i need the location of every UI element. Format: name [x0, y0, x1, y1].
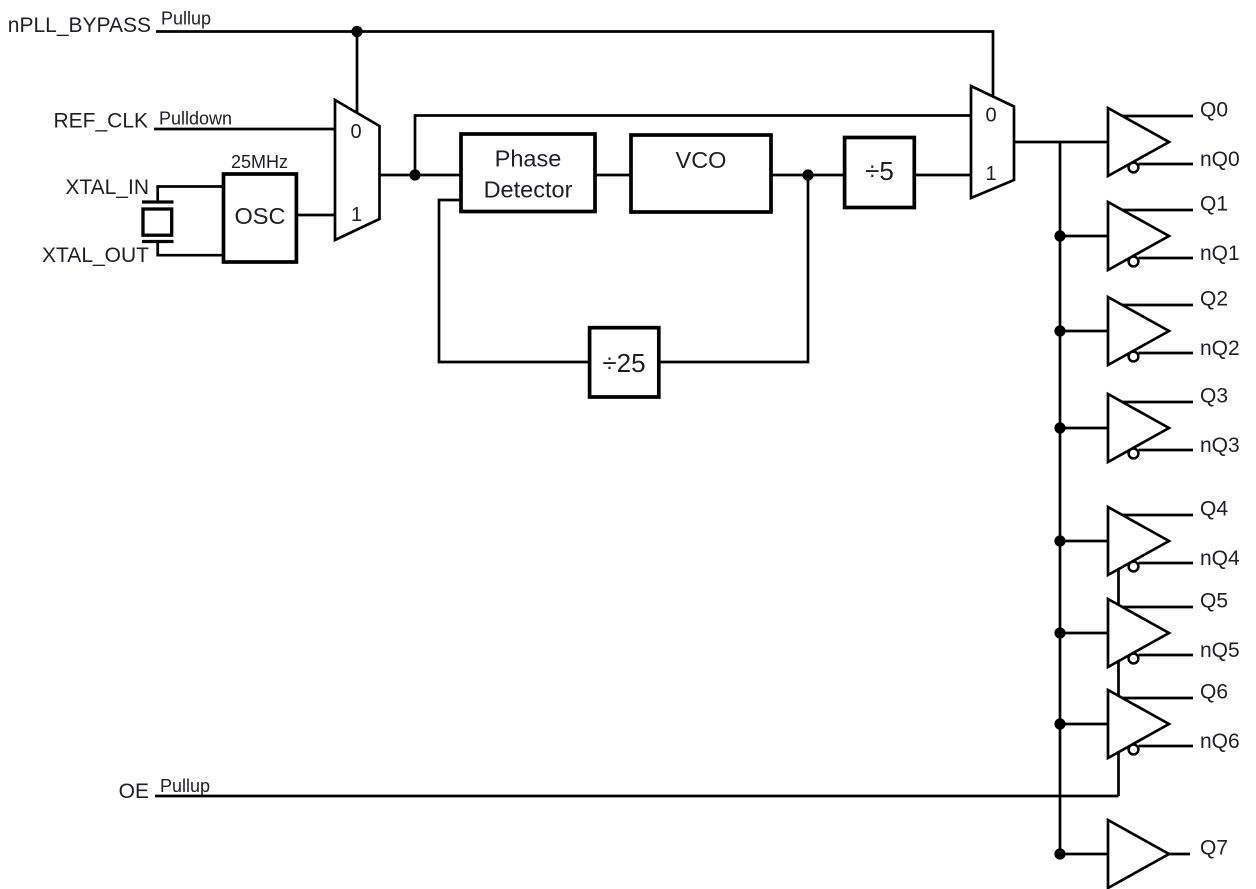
wire enable Q4 to Q5 [1117, 568, 1120, 606]
svg-text:XTAL_OUT: XTAL_OUT [42, 244, 149, 267]
svg-text:Q6: Q6 [1200, 681, 1228, 704]
vco U4 [631, 135, 771, 212]
svg-text:nQ2: nQ2 [1200, 337, 1240, 360]
svg-text:nQ6: nQ6 [1200, 730, 1240, 753]
wire divider /25 to Phase Detector feedback [439, 200, 590, 362]
buffer U6 Q1/nQ1 [1060, 193, 1240, 271]
svg-text:nPLL_BYPASS: nPLL_BYPASS [8, 14, 151, 37]
wire divider /5 to mux U2 input 1 [914, 174, 971, 177]
svg-text:Pullup: Pullup [160, 776, 210, 796]
svg-text:nQ1: nQ1 [1200, 242, 1240, 265]
svg-text:Q4: Q4 [1200, 498, 1228, 521]
buffer U12 Q7 [1060, 820, 1228, 888]
junction bus Q6 [1054, 718, 1065, 729]
wire clock distribution bus [1059, 142, 1062, 854]
oscillator OSC box [224, 174, 297, 262]
svg-text:Q0: Q0 [1200, 99, 1228, 122]
node OE label [119, 776, 210, 803]
svg-text:nQ0: nQ0 [1200, 148, 1240, 171]
wire REF_CLK to mux U1 input 0 [154, 128, 335, 131]
wire VCO output [771, 174, 845, 177]
buffer U5 Q0/nQ0 [1108, 99, 1240, 177]
wire enable Q6 to OE rail [1117, 751, 1120, 796]
junction VCO output [802, 169, 813, 180]
buffer U10 Q5/nQ5 [1060, 590, 1240, 668]
node REF_CLK label [53, 109, 232, 133]
svg-text:25MHz: 25MHz [231, 152, 288, 172]
svg-text:÷25: ÷25 [602, 348, 645, 378]
buffer U7 Q2/nQ2 [1060, 288, 1240, 366]
svg-text:XTAL_IN: XTAL_IN [65, 176, 149, 199]
junction bus Q4 [1054, 535, 1065, 546]
wire mux U2 output to buffer Q0 [1014, 141, 1108, 144]
svg-text:Q1: Q1 [1200, 193, 1228, 216]
crystal Y1 body [143, 209, 172, 235]
svg-text:Detector: Detector [484, 177, 573, 203]
svg-text:0: 0 [350, 121, 361, 143]
svg-text:1: 1 [985, 163, 996, 185]
junction bus Q3 [1054, 422, 1065, 433]
wire VCO output to divider /25 [658, 175, 808, 362]
svg-text:Q2: Q2 [1200, 288, 1228, 311]
svg-text:nQ3: nQ3 [1200, 434, 1240, 457]
svg-text:OE: OE [119, 780, 149, 803]
mux U1 [335, 100, 380, 240]
buffer U11 Q6/nQ6 [1060, 681, 1240, 759]
wire enable Q5 to Q6 [1117, 660, 1120, 697]
divider /5 box [845, 138, 915, 208]
svg-text:OSC: OSC [235, 203, 286, 229]
svg-text:REF_CLK: REF_CLK [53, 110, 148, 133]
svg-text:0: 0 [985, 105, 996, 127]
wire Phase Detector to VCO [595, 174, 631, 177]
mux U2 [971, 86, 1014, 198]
buffer U9 Q4/nQ4 [1060, 498, 1240, 576]
wire PLL bypass path to mux U2 input 0 [415, 116, 971, 176]
junction on nPLL_BYPASS rail [351, 26, 362, 37]
junction bus Q5 [1054, 627, 1065, 638]
svg-text:nQ5: nQ5 [1200, 639, 1240, 662]
junction bus Q2 [1054, 325, 1065, 336]
svg-text:VCO: VCO [676, 147, 727, 173]
buffer U8 Q3/nQ3 [1060, 385, 1240, 463]
svg-text:1: 1 [351, 204, 362, 226]
wire nPLL_BYPASS rail to mux U2 select [156, 32, 993, 98]
divider /25 box [590, 328, 659, 397]
crystal Y1 bottom plate [142, 240, 174, 243]
wire OE rail [155, 795, 1119, 798]
junction bus Q7 [1054, 848, 1065, 859]
svg-text:Q5: Q5 [1200, 590, 1228, 613]
svg-text:Pullup: Pullup [161, 9, 211, 29]
junction mux U1 output [409, 169, 420, 180]
phase detector U3 [461, 134, 595, 212]
wire mux U1 output to Phase Detector [380, 174, 462, 177]
junction bus Q1 [1054, 230, 1065, 241]
svg-text:nQ4: nQ4 [1200, 547, 1240, 570]
wire OSC to mux U1 input 1 [296, 214, 335, 217]
crystal Y1 top plate [142, 200, 174, 203]
svg-text:Q7: Q7 [1200, 837, 1228, 860]
svg-text:Pulldown: Pulldown [159, 109, 232, 129]
svg-text:÷5: ÷5 [865, 156, 894, 186]
wire mux U1 select [356, 32, 359, 115]
wire XTAL_IN to OSC [158, 187, 224, 204]
wire XTAL_OUT to OSC [158, 243, 224, 256]
svg-text:Q3: Q3 [1200, 385, 1228, 408]
node nPLL_BYPASS label [8, 9, 211, 38]
svg-text:Phase: Phase [495, 146, 562, 172]
